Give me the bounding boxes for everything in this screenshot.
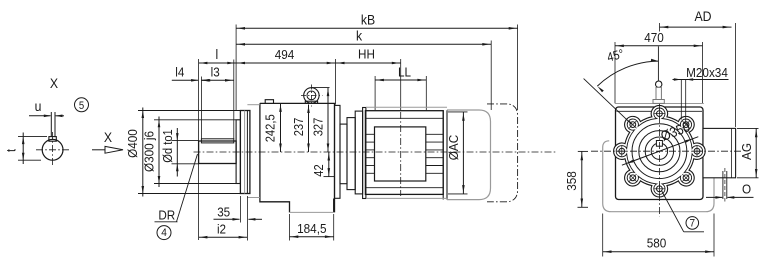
flange mid contour (grey) bbox=[244, 111, 246, 194]
svg-text:M20x34: M20x34 bbox=[686, 65, 728, 80]
fan cover (grey) bbox=[447, 110, 491, 200]
svg-text:Ø400: Ø400 bbox=[125, 129, 140, 158]
flange scallop outer outline bbox=[614, 105, 706, 197]
dimension HH bbox=[336, 62, 401, 64]
svg-text:u: u bbox=[35, 98, 42, 114]
note circle 4 bbox=[157, 226, 171, 240]
cable gland below terminal box bbox=[722, 171, 724, 199]
dimension Ø350 (bolt circle) bbox=[622, 137, 698, 166]
gear housing body bbox=[260, 103, 335, 212]
adapter neck bbox=[340, 124, 347, 184]
dimension kB (overall length) bbox=[236, 27, 517, 29]
gear housing neck contour (grey) bbox=[247, 104, 260, 106]
svg-text:DR: DR bbox=[158, 208, 175, 223]
motor vertical centerline bbox=[400, 112, 402, 196]
shaft section circle bbox=[42, 139, 63, 160]
note circle 5 bbox=[75, 98, 89, 112]
motor flange ring bbox=[363, 108, 366, 199]
svg-text:580: 580 bbox=[647, 236, 667, 251]
dimension 494 bbox=[236, 62, 336, 64]
svg-text:kB: kB bbox=[361, 11, 375, 27]
output flange disc bbox=[240, 111, 250, 194]
dimension 358 bbox=[578, 150, 588, 152]
svg-text:AD: AD bbox=[694, 8, 711, 24]
svg-text:AG: AG bbox=[739, 143, 754, 160]
motor cooling fins bbox=[365, 117, 443, 119]
horizontal centerline of gearmotor bbox=[194, 151, 558, 153]
dimension 242,5 bbox=[280, 103, 282, 152]
breather valve circles bbox=[304, 88, 319, 103]
dimension Ø400 (flange outer diameter) bbox=[138, 110, 240, 112]
svg-text:327: 327 bbox=[311, 118, 325, 137]
dimension 42 bbox=[324, 176, 335, 178]
svg-text:184,5: 184,5 bbox=[297, 221, 326, 236]
breather centerlines bbox=[301, 94, 323, 96]
svg-text:42: 42 bbox=[312, 164, 326, 176]
dimension i2 bbox=[199, 236, 248, 238]
svg-text:X: X bbox=[104, 129, 113, 145]
lug on housing top bbox=[265, 100, 273, 104]
dimension t (key depth) bbox=[18, 136, 47, 138]
dimension AG (terminal box height) bbox=[737, 127, 759, 129]
dimension O bbox=[706, 196, 722, 198]
flange scallop inner outline bbox=[616, 108, 702, 194]
key of shaft section bbox=[49, 137, 56, 142]
flange bolt holes M20 bbox=[657, 111, 663, 117]
svg-text:4: 4 bbox=[161, 227, 167, 239]
dimension 580 bbox=[602, 214, 604, 257]
rear housing square bbox=[616, 107, 704, 200]
dimension ØAC (motor diameter) bbox=[448, 111, 468, 113]
svg-text:k: k bbox=[356, 27, 363, 43]
dimension l3 (key length) bbox=[201, 79, 233, 81]
svg-text:358: 358 bbox=[564, 171, 579, 191]
dimension 327 bbox=[312, 87, 330, 89]
svg-text:Ø300 j6: Ø300 j6 bbox=[142, 131, 157, 172]
output shaft bbox=[199, 141, 237, 164]
svg-text:494: 494 bbox=[275, 47, 295, 62]
dimension AD bbox=[660, 26, 732, 28]
svg-text:HH: HH bbox=[358, 47, 375, 62]
fan cowl rear outline (grey) bbox=[603, 141, 714, 212]
dimension LL bbox=[375, 79, 426, 81]
dimension Ød to1 (shaft diameter) bbox=[172, 140, 200, 142]
eyebolt on top bbox=[656, 81, 662, 87]
flange concentric circles bbox=[632, 124, 687, 179]
adapter step ring 1 bbox=[347, 118, 355, 190]
svg-text:O: O bbox=[742, 181, 751, 196]
svg-text:237: 237 bbox=[292, 118, 306, 137]
note circle 7 with leader bbox=[662, 191, 684, 232]
adapter ring at gearbox input bbox=[335, 105, 341, 198]
extension lines at shaft end bbox=[198, 59, 200, 141]
rear view centerlines bbox=[591, 150, 741, 152]
dimension 237 bbox=[308, 105, 310, 153]
svg-text:35: 35 bbox=[217, 204, 230, 219]
svg-text:5: 5 bbox=[79, 100, 84, 112]
terminal box at right bbox=[703, 128, 736, 177]
svg-text:X: X bbox=[50, 75, 59, 91]
phantom outline larger fan cover (dash-dot) bbox=[487, 104, 518, 202]
svg-text:l3: l3 bbox=[211, 65, 220, 80]
dimension k bbox=[236, 43, 491, 45]
svg-text:242,5: 242,5 bbox=[264, 114, 278, 142]
svg-text:i2: i2 bbox=[217, 222, 226, 237]
svg-text:Ød to1: Ød to1 bbox=[161, 129, 175, 163]
svg-text:ØAC: ØAC bbox=[446, 134, 461, 160]
svg-text:l4: l4 bbox=[175, 65, 184, 80]
breather valve neck bbox=[305, 101, 317, 103]
svg-text:470: 470 bbox=[644, 30, 664, 45]
dimension l4 bbox=[172, 79, 198, 81]
hollow shaft keyway bbox=[656, 141, 662, 147]
adapter step ring 2 bbox=[355, 111, 362, 194]
45 degree dimension arc bbox=[657, 46, 659, 81]
shaft key bbox=[201, 139, 233, 143]
svg-text:l: l bbox=[215, 46, 218, 62]
dimension 470 bbox=[615, 45, 703, 47]
dimension Ø300 j6 (flange spigot) bbox=[154, 119, 236, 121]
svg-text:t: t bbox=[5, 149, 19, 153]
cover plate top edge (grey) bbox=[615, 103, 704, 105]
motor frame window bbox=[375, 127, 426, 181]
svg-text:7: 7 bbox=[690, 218, 696, 230]
dimension l bbox=[199, 62, 237, 64]
dimension 184,5 bbox=[289, 214, 291, 241]
motor stator body bbox=[365, 111, 443, 195]
dimension 35 bbox=[239, 196, 241, 223]
output flange spigot bbox=[236, 120, 240, 184]
fan cowl top edge over stator (grey) bbox=[366, 106, 447, 108]
svg-text:LL: LL bbox=[398, 64, 411, 79]
fan cover lip bbox=[442, 110, 444, 199]
oil sump bottom (grey) bbox=[290, 211, 334, 213]
centerlines of shaft section bbox=[36, 149, 69, 151]
